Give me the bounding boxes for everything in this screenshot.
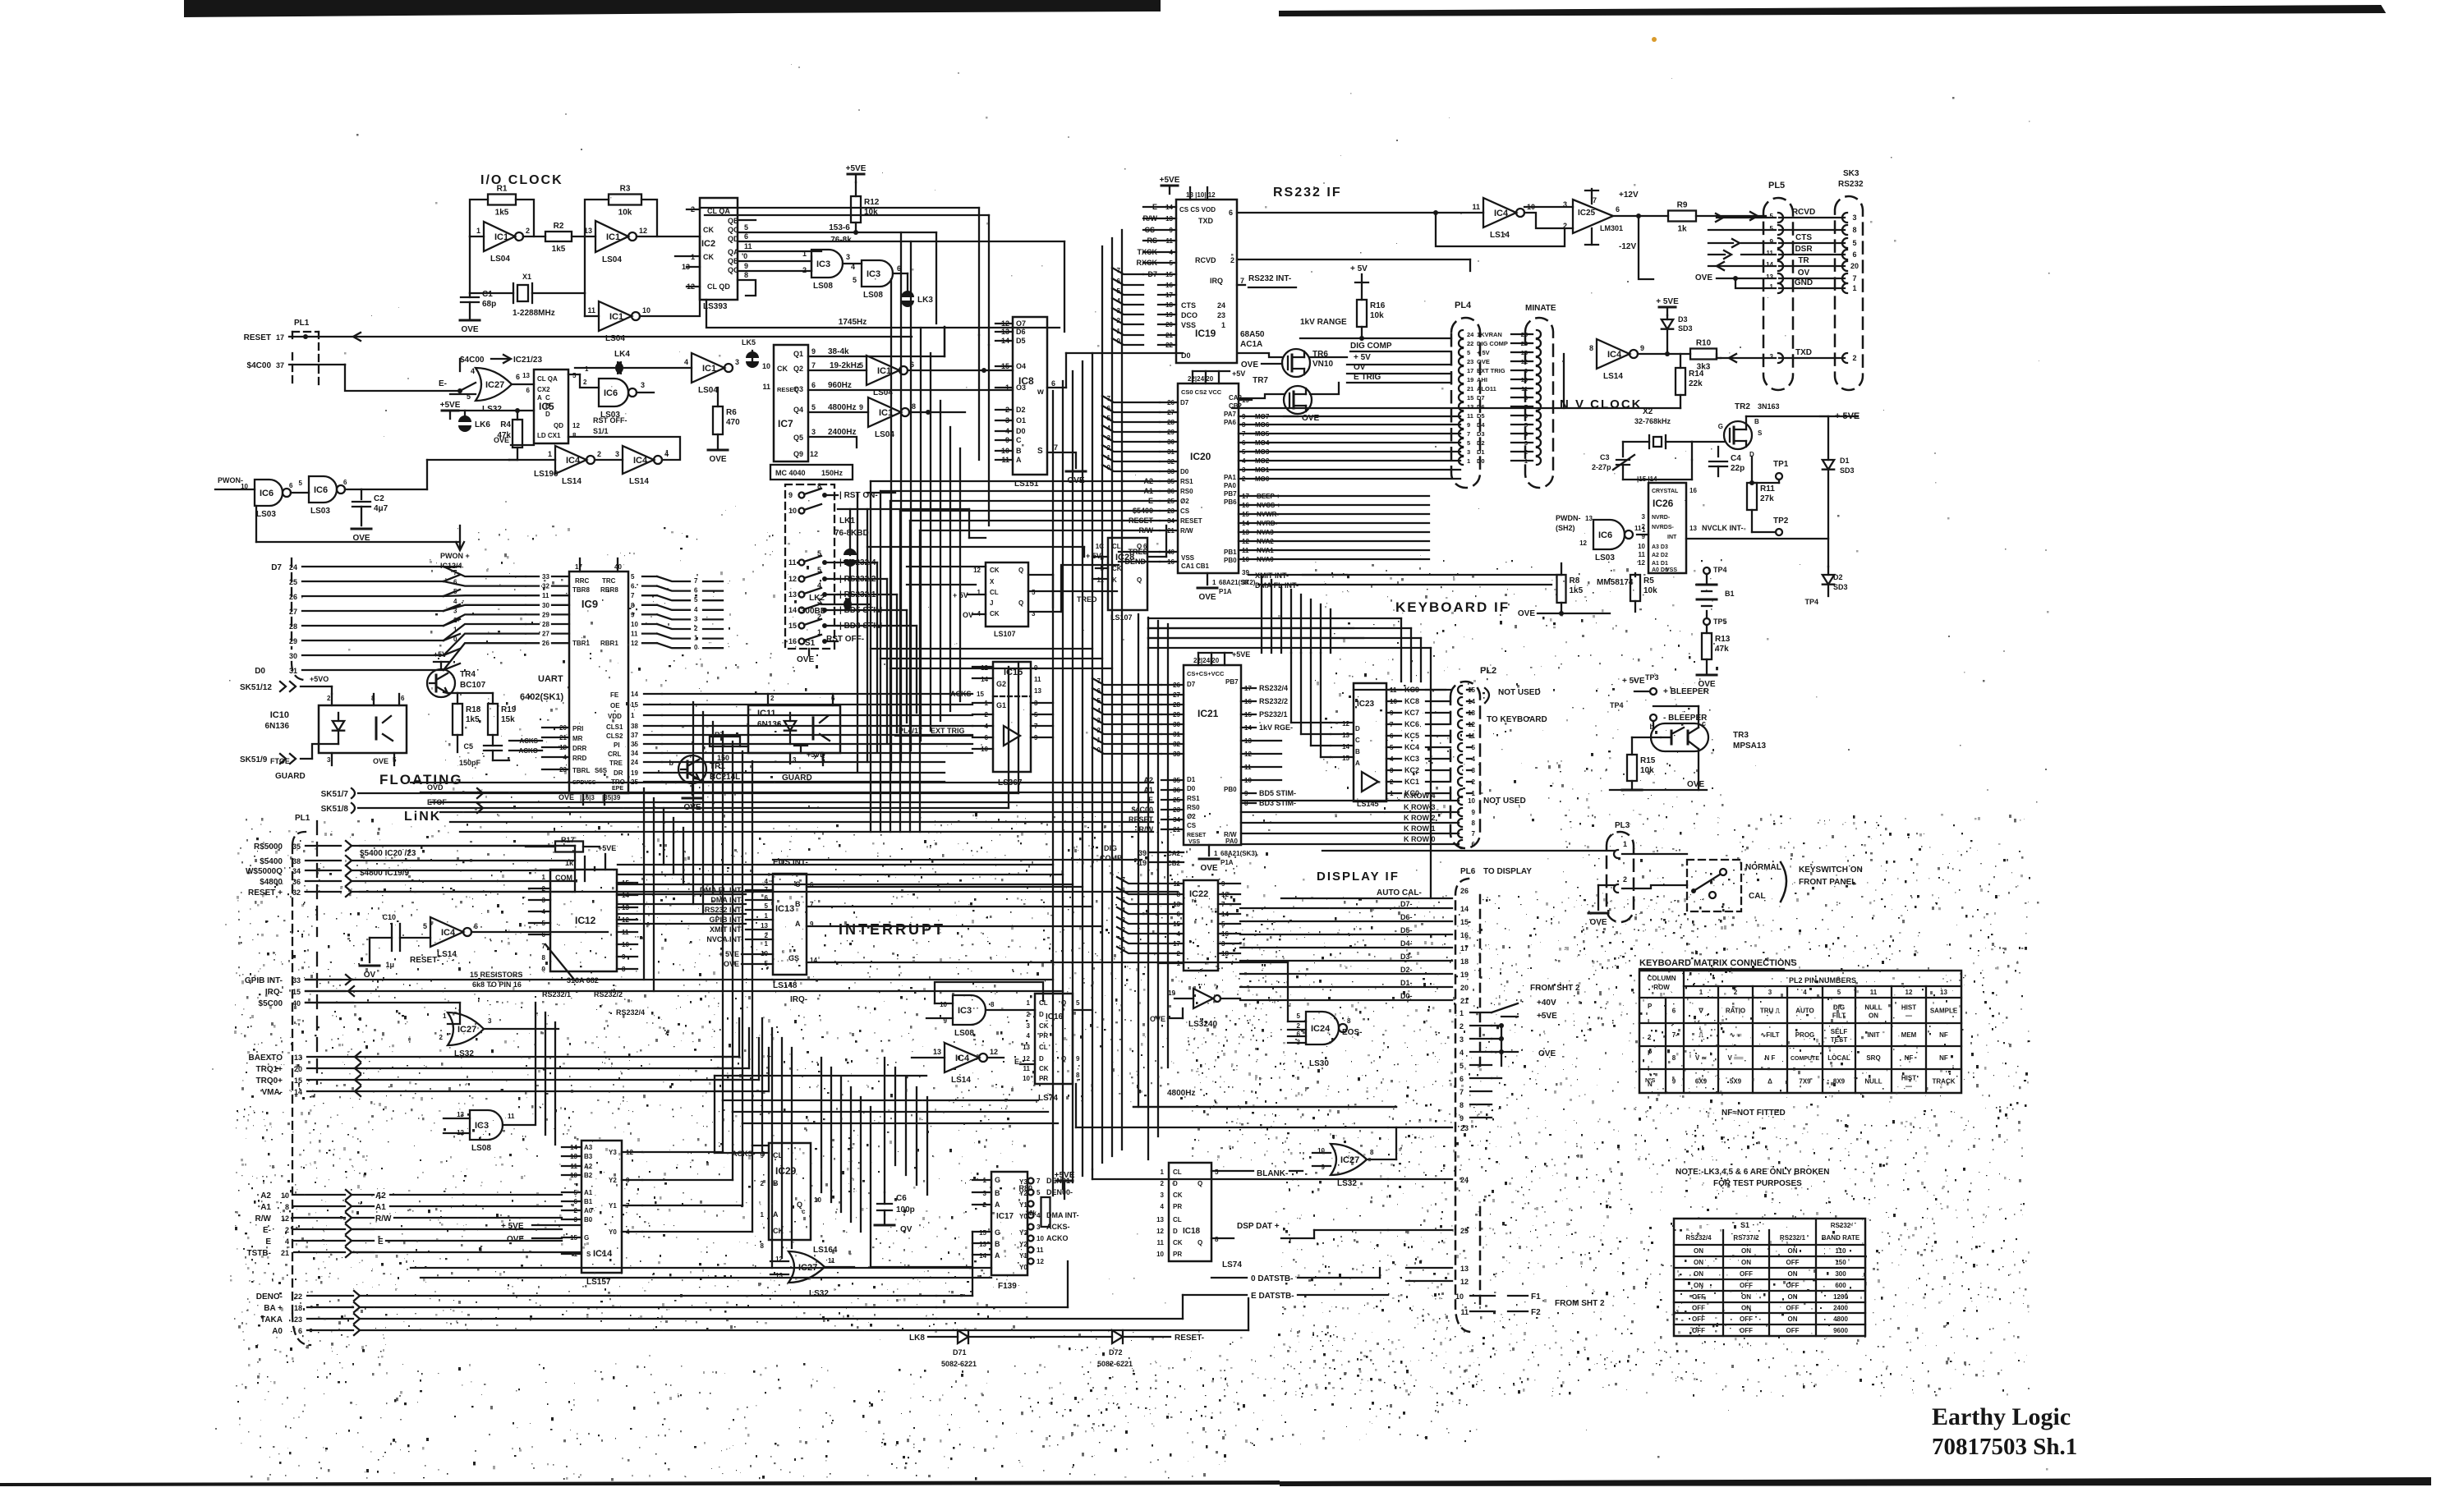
svg-text:31: 31 [289,667,297,675]
svg-text:10: 10 [1468,797,1475,805]
wire [421,792,1153,793]
svg-text:CK: CK [1173,1239,1183,1246]
svg-text:4: 4 [1027,1032,1031,1040]
svg-text:1: 1 [1214,850,1218,857]
svg-text:OV: OV [900,1225,913,1234]
svg-text:10: 10 [642,306,650,314]
svg-text:PB0: PB0 [1224,557,1237,564]
svg-text:11: 11 [1460,1308,1469,1316]
svg-text:OVE: OVE [1241,360,1258,370]
svg-text:IC28: IC28 [1115,553,1134,562]
svg-text:IC7: IC7 [778,418,793,429]
svg-text:PROG: PROG [1795,1031,1815,1039]
svg-text:+ 5V: + 5V [1354,353,1371,362]
svg-text:GND: GND [1795,278,1813,287]
wire [807,925,1102,927]
svg-text:9: 9 [631,611,635,618]
svg-text:P1A: P1A [1219,588,1232,595]
svg-text:RS1: RS1 [1187,795,1200,802]
wire [890,500,1124,502]
wire [752,761,753,1145]
svg-text:OVE: OVE [461,325,478,334]
svg-text:AC1A: AC1A [1240,340,1262,349]
svg-text:2: 2 [1161,1180,1165,1187]
svg-text:13: 13 [1342,732,1349,739]
svg-text:8: 8 [1215,1236,1219,1243]
svg-text:ON: ON [1694,1259,1703,1266]
svg-text:B3: B3 [584,1153,593,1160]
svg-text:11: 11 [1034,676,1041,683]
wire [1300,595,1302,653]
mosfet TR7 [1284,386,1312,414]
svg-text:5: 5 [1770,213,1774,220]
svg-text:IRQ-: IRQ- [265,988,283,997]
svg-text:KC7: KC7 [1404,709,1419,717]
svg-text:CK: CK [703,226,714,234]
wire [886,579,888,742]
svg-text:IC12: IC12 [575,915,596,926]
diode D2 SD3 [1823,575,1834,585]
svg-text:37: 37 [1242,579,1249,586]
svg-text:PB7: PB7 [1224,490,1237,498]
svg-text:BC214L: BC214L [710,773,740,782]
svg-text:Δ: Δ [1768,1078,1772,1086]
svg-text:TRQ0+: TRQ0+ [255,1077,283,1086]
svg-text:RS232/4: RS232/4 [1259,684,1288,692]
wire [662,752,972,754]
svg-text:12: 12 [1905,989,1913,996]
svg-text:IC1: IC1 [877,366,891,376]
svg-text:2: 2 [1460,1022,1464,1031]
svg-text:7X9: 7X9 [1799,1078,1811,1086]
svg-text:5: 5 [1297,1012,1301,1020]
svg-text:5: 5 [1837,989,1841,996]
svg-text:D: D [1039,1055,1044,1063]
svg-text:DMA INT-: DMA INT- [710,896,743,904]
flip-flop IC28b LS107 [986,562,1028,627]
svg-text:LM301: LM301 [1600,224,1623,232]
svg-text:5: 5 [1215,1168,1219,1176]
svg-text:+ 5V: + 5V [1477,349,1490,356]
bottom scanner bar right [1280,1477,2431,1486]
svg-text:15: 15 [292,988,301,996]
svg-text:B: B [545,402,550,410]
wire [884,1058,885,1192]
svg-text:IC29: IC29 [775,1165,797,1177]
resistor R7 150 [710,737,740,746]
svg-text:21: 21 [281,1249,289,1257]
svg-text:COLUMN: COLUMN [1647,975,1676,982]
svg-text:D3: D3 [1678,315,1688,324]
svg-text:70817503 Sh.1: 70817503 Sh.1 [1932,1434,2077,1460]
svg-text:0: 0 [453,636,457,643]
svg-text:14: 14 [981,676,988,683]
svg-text:IC4: IC4 [633,456,648,466]
svg-text:12: 12 [572,422,580,429]
svg-text:1: 1 [1623,840,1627,848]
svg-text:11: 11 [631,631,638,638]
wire IC1b out [637,236,700,237]
svg-text:LK3: LK3 [917,296,933,305]
svg-text:29: 29 [542,611,549,618]
svg-text:LS30: LS30 [1309,1059,1329,1068]
svg-text:+40V: +40V [1537,998,1556,1008]
svg-text:13: 13 [1460,1265,1469,1273]
svg-text:8: 8 [542,954,546,962]
svg-text:VDD: VDD [608,713,622,720]
svg-text:15: 15 [1467,394,1473,402]
svg-text:6: 6 [1472,841,1476,848]
svg-text:1-2288MHz: 1-2288MHz [513,309,555,318]
svg-text:- BLEEPER: - BLEEPER [1663,714,1708,723]
svg-text:G: G [995,1176,1000,1184]
svg-text:PWDN-: PWDN- [1556,514,1581,522]
wire long ETOF/OVD runs [1018,662,1019,793]
svg-text:D7: D7 [1180,399,1189,406]
svg-text:5: 5 [1460,1062,1464,1070]
svg-text:X: X [990,578,995,585]
svg-text:7: 7 [631,592,635,599]
svg-text:5: 5 [817,549,821,558]
ground OVE below C1 [460,319,480,322]
svg-text:CL: CL [1173,1216,1182,1223]
svg-text:TRC: TRC [602,577,616,585]
svg-text:6: 6 [1107,405,1111,412]
svg-text:960Hz: 960Hz [828,381,852,390]
svg-text:68A21(SK3): 68A21(SK3) [1221,850,1257,857]
wire [919,530,921,832]
svg-text:RESET-: RESET- [1175,1334,1204,1343]
svg-text:RS232/1: RS232/1 [1780,1234,1806,1242]
wire [1167,624,1169,1067]
svg-text:E: E [378,1237,384,1246]
wire [850,1087,852,1222]
svg-text:A2: A2 [375,1191,386,1200]
svg-text:NF: NF [1905,1054,1914,1062]
wire [1117,937,1158,943]
wire [1101,246,1103,1163]
svg-text:$4800 IC19/9: $4800 IC19/9 [360,869,409,878]
svg-text:0: 0 [1107,464,1111,471]
svg-text:D: D [1355,725,1360,732]
svg-text:4: 4 [684,358,688,366]
svg-text:1: 1 [765,940,769,948]
svg-text:PRI: PRI [572,725,583,732]
svg-text:FOR TEST PURPOSES: FOR TEST PURPOSES [1713,1179,1802,1188]
IC21 bottom [1208,845,1210,856]
svg-text:4800: 4800 [1833,1315,1848,1323]
wire [1102,406,1160,412]
svg-text:A1 D1: A1 D1 [1652,561,1668,567]
svg-text:ON: ON [1788,1315,1798,1323]
svg-text:6: 6 [631,583,635,590]
svg-text:OV: OV [1798,269,1810,278]
svg-text:10: 10 [1023,1075,1030,1082]
svg-text:RATIO: RATIO [1726,1008,1745,1015]
svg-text:NOTE:-LK3,4,5 & 6 ARE ONLY B: NOTE:-LK3,4,5 & 6 ARE ONLY BROKEN [1676,1168,1829,1177]
bottom scanner line left [0,1481,1280,1486]
svg-text:BA +: BA + [264,1304,283,1313]
wire [1092,678,1161,685]
svg-text:38-4k: 38-4k [828,347,849,356]
svg-text:33: 33 [292,976,301,985]
svg-text:D6: D6 [1016,328,1026,336]
svg-text:3: 3 [1161,1191,1165,1199]
svg-text:INT: INT [1667,535,1677,540]
svg-text:IC3: IC3 [958,1006,972,1016]
RCVD wire from IC19 [1237,259,1470,260]
svg-text:11: 11 [1634,525,1642,532]
svg-text:6: 6 [1229,209,1233,217]
svg-text:E-: E- [439,379,447,388]
svg-text:O7: O7 [1016,319,1026,328]
buffer LS3240 [1193,989,1213,1008]
svg-text:LS03: LS03 [1595,553,1615,562]
svg-text:CL: CL [990,589,999,596]
svg-text:B0: B0 [584,1216,593,1223]
svg-text:CL: CL [1112,543,1121,550]
svg-text:RRC: RRC [575,577,590,585]
wire [1148,627,1411,629]
svg-text:NºS: NºS [1645,1078,1656,1084]
resistor network IC12 316A682 [550,870,617,971]
svg-text:+5VE: +5VE [1160,176,1180,185]
svg-text:TP4: TP4 [1713,566,1727,574]
svg-text:8: 8 [1589,344,1593,352]
svg-text:10: 10 [1455,1292,1464,1301]
wire $4C00 run [345,365,460,391]
svg-text:IC1: IC1 [609,312,623,322]
svg-text:47k: 47k [1715,645,1729,654]
svg-text:2: 2 [526,227,530,235]
svg-text:4: 4 [1107,425,1111,432]
wire [1112,278,1143,285]
svg-text:A3: A3 [584,1144,593,1151]
svg-text:5: 5 [1467,349,1470,356]
svg-text:D72: D72 [1109,1348,1123,1357]
svg-text:ON: ON [1741,1293,1751,1301]
svg-text:22: 22 [294,1292,302,1301]
svg-text:E DATSTB-: E DATSTB- [1251,1292,1294,1301]
svg-text:N F: N F [1765,1054,1776,1062]
svg-text:+5VE: +5VE [440,401,461,410]
svg-text:+5VO: +5VO [310,675,329,683]
svg-text:R/W: R/W [1180,527,1193,535]
top scanner line right [1279,5,2386,16]
svg-text:D: D [1039,1011,1044,1018]
wire [732,741,733,1112]
svg-text:38: 38 [631,723,638,730]
wire mid band extras [871,648,1092,650]
svg-text:XMIT INT-: XMIT INT- [710,925,743,934]
svg-text:HIST: HIST [1901,1004,1916,1012]
nand IC6b LS03 pwon [255,480,283,506]
resistor R18 1k5 [453,704,462,735]
power +5VE at IC18 [1056,1180,1073,1182]
svg-text:2: 2 [1734,989,1738,996]
svg-text:1: 1 [1212,579,1216,586]
svg-text:COMPUTE: COMPUTE [1791,1056,1819,1062]
svg-text:2: 2 [1117,317,1121,324]
svg-text:11: 11 [1157,1239,1165,1246]
svg-text:0: 0 [1097,746,1101,754]
svg-text:NOT USED: NOT USED [1498,688,1541,697]
svg-text:TAKA: TAKA [260,1315,283,1324]
svg-text:C6: C6 [896,1194,907,1203]
svg-text:D7: D7 [1187,681,1196,688]
svg-text:IC4: IC4 [1607,350,1622,360]
svg-text:DIG COMP: DIG COMP [1350,342,1392,351]
svg-text:1: 1 [1642,526,1646,534]
wire [1102,415,1160,422]
svg-text:F139: F139 [998,1282,1017,1291]
svg-text:'0: '0 [742,252,747,260]
svg-text:PL1: PL1 [295,814,310,823]
wire [1092,708,1161,714]
switch block S1 dashed [785,484,834,649]
svg-text:8: 8 [817,482,821,490]
wire EOS runs [807,962,1288,963]
svg-text:D5: D5 [1016,337,1026,345]
svg-text:7: 7 [1472,830,1476,838]
wire [1117,917,1158,924]
svg-text:9: 9 [1770,238,1774,246]
svg-text:SD3: SD3 [1678,324,1693,333]
svg-text:39: 39 [1138,849,1147,857]
svg-text:6: 6 [811,381,816,389]
optocoupler IC10 6N136 [319,705,407,753]
svg-text:b: b [1650,723,1655,731]
wire [1148,637,1421,639]
wire GPIB IRQ runs to spine [772,979,1053,980]
svg-text:1: 1 [548,450,552,458]
wire [742,751,743,1123]
svg-text:12: 12 [990,1048,998,1056]
svg-text:1kV RGE-: 1kV RGE- [1259,723,1293,732]
svg-text:D: D [1173,1228,1178,1235]
svg-text:CK: CK [1112,565,1122,572]
svg-text:IC2: IC2 [701,239,715,249]
svg-text:OVE: OVE [1518,609,1535,618]
svg-text:PL3: PL3 [1615,821,1630,830]
svg-text:6: 6 [453,579,457,586]
svg-text:9: 9 [1640,344,1644,352]
svg-text:D6-: D6- [1400,913,1413,921]
wire [1112,318,1143,324]
wire [411,782,1153,783]
svg-text:3: 3 [641,381,645,389]
wire [909,521,911,832]
svg-text:68p: 68p [482,300,496,309]
svg-text:PI: PI [614,741,620,749]
svg-text:12: 12 [1156,1228,1164,1235]
svg-text:IRQ-: IRQ- [790,995,807,1004]
svg-text:KC5: KC5 [1404,732,1419,740]
wire [1157,621,1159,1136]
svg-text:5: 5 [631,573,635,581]
svg-text:Ø2: Ø2 [1180,498,1189,505]
svg-text:0: 0 [694,644,698,651]
capacitor C2 4u7 [345,489,361,490]
svg-text:12: 12 [1460,1278,1469,1286]
svg-text:OVE: OVE [373,757,388,765]
wire [840,1077,842,1212]
svg-text:1: 1 [761,1211,765,1219]
svg-text:11: 11 [1870,989,1878,996]
svg-text:BLANK-: BLANK- [1257,1169,1288,1178]
svg-text:VSS: VSS [1666,567,1677,573]
keyswitch box dashed [1687,860,1741,911]
svg-text:13: 13 [979,1241,986,1248]
svg-text:TRQ1+: TRQ1+ [255,1065,283,1074]
wire [662,761,945,763]
svg-text:S6S: S6S [595,767,608,774]
svg-text:MM58174: MM58174 [1597,578,1634,587]
wire [930,353,931,731]
wire [926,1097,928,1195]
svg-text:11: 11 [1097,576,1105,584]
svg-text:A: A [995,1251,1000,1260]
svg-text:LS107: LS107 [994,630,1016,638]
wire [857,493,858,772]
svg-text:A1: A1 [584,1189,593,1196]
svg-text:ON: ON [1869,1012,1878,1020]
svg-text:RCVD: RCVD [1792,208,1815,217]
ACIA IC19 68A50 [1176,200,1237,363]
mosfet TR6 VN10 [1282,349,1310,377]
svg-text:1μ: 1μ [385,961,394,969]
svg-text:+ 5VE: + 5VE [1656,297,1679,306]
wire [1117,927,1158,934]
svg-text:13: 13 [1940,989,1947,996]
svg-text:LS08: LS08 [954,1029,974,1038]
svg-text:∿ ═: ∿ ═ [1730,1031,1742,1039]
svg-text:IC25: IC25 [1578,209,1596,218]
svg-text:15: 15 [1460,918,1469,926]
or gate IC27b LS32 [448,1003,460,1024]
svg-text:RS232 INT-: RS232 INT- [1248,274,1291,283]
svg-text:IC4: IC4 [441,928,456,938]
svg-text:SK3: SK3 [1843,169,1859,178]
svg-text:2: 2 [439,1034,444,1041]
svg-text:7: 7 [1054,443,1058,452]
svg-text:R19: R19 [501,705,517,714]
svg-text:PL2 PIN NUMBERS: PL2 PIN NUMBERS [1789,976,1856,985]
diode D3 SD3 [1659,306,1676,309]
wire [1092,353,1093,1169]
svg-text:GUARD: GUARD [275,772,306,781]
wire ACKS nest [714,1076,715,1153]
op amp IC25 LM301 [1573,200,1613,233]
svg-text:PS232/1: PS232/1 [1259,710,1288,718]
wire [618,884,1073,885]
svg-text:COM: COM [555,874,572,882]
svg-text:CS0 CS2 VCC: CS0 CS2 VCC [1181,388,1222,396]
svg-text:RS232/2: RS232/2 [1259,697,1288,705]
svg-text:2: 2 [327,695,331,702]
battery B1 [1827,566,1829,567]
svg-text:R12: R12 [864,198,880,207]
svg-text:32-768kHz: 32-768kHz [1634,417,1671,425]
svg-text:ALO11: ALO11 [1477,385,1496,393]
svg-text:G2: G2 [996,680,1006,688]
svg-text:8: 8 [1076,1072,1080,1079]
svg-text:7: 7 [1107,395,1111,402]
and IC3c LS08 [953,995,986,1025]
svg-text:OVE: OVE [724,960,739,968]
svg-text:A1: A1 [260,1203,271,1212]
svg-text:IRQ: IRQ [1210,277,1223,285]
